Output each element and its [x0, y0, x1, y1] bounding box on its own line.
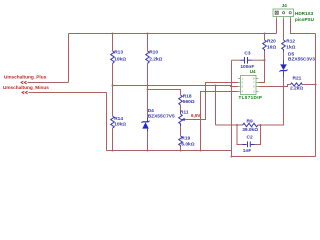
- svg-text:R9: R9: [247, 118, 253, 124]
- svg-text:Umschaltung_Plus: Umschaltung_Plus: [4, 74, 47, 79]
- svg-text:picoPSU: picoPSU: [295, 17, 315, 22]
- capacitor C2: [237, 125, 261, 147]
- svg-text:R18: R18: [183, 93, 192, 99]
- wire D4 to bottom rail: [147, 132, 149, 151]
- svg-text:TL071DIP: TL071DIP: [239, 95, 263, 100]
- wire R18 to R11: [180, 105, 182, 114]
- svg-text:R21: R21: [293, 76, 302, 82]
- wire bottom rail step: [231, 151, 233, 157]
- potentiometer R11 wiper arrow: [181, 118, 184, 121]
- wire R11 to R19: [180, 126, 182, 136]
- wire output pin6: [259, 85, 291, 87]
- wire feedback line right: [258, 124, 261, 126]
- wire R19 to rail: [180, 147, 182, 151]
- wire feedback to output: [261, 87, 284, 126]
- wire Umschaltung_Minus lead: [29, 92, 107, 94]
- wire Umschaltung_Plus lead: [28, 82, 69, 84]
- resistor R20: [263, 40, 267, 51]
- svg-text:R19: R19: [181, 136, 190, 142]
- wire R13 to mid rail: [112, 64, 114, 117]
- wire R12 to D5: [283, 52, 285, 61]
- wire R13 column top: [112, 34, 114, 52]
- svg-text:2.2kΩ: 2.2kΩ: [290, 86, 303, 92]
- wire stub to R18: [148, 90, 181, 96]
- svg-text:Umschaltung_Minus: Umschaltung_Minus: [3, 85, 49, 90]
- port arrow Umschaltung_Plus: [21, 81, 27, 84]
- wire R20 bottom to pin7: [259, 51, 265, 83]
- port arrow Umschaltung_Minus: [22, 91, 28, 94]
- resistor R9: [243, 123, 259, 127]
- svg-text:C2: C2: [247, 134, 253, 140]
- svg-text:R12: R12: [286, 38, 295, 44]
- wire bottom rail left: [107, 150, 232, 152]
- wire J4 pin3 down: [291, 17, 316, 34]
- wire R10 column top: [147, 34, 149, 52]
- resistor R18: [179, 95, 183, 105]
- svg-text:16Ω: 16Ω: [267, 44, 276, 50]
- resistor R19: [179, 136, 183, 147]
- svg-text:1kΩ: 1kΩ: [286, 44, 295, 50]
- svg-text:6.0kΩ: 6.0kΩ: [181, 141, 194, 147]
- svg-text:D4: D4: [148, 108, 154, 114]
- resistor R12: [282, 40, 286, 52]
- wire R14 to bottom rail: [112, 128, 114, 150]
- resistor R10: [146, 51, 150, 64]
- svg-text:6,5V: 6,5V: [191, 113, 201, 118]
- svg-text:10kΩ: 10kΩ: [114, 122, 126, 128]
- svg-text:J4: J4: [282, 3, 288, 8]
- wire J4 pin2 to R12: [283, 17, 285, 40]
- resistor R21: [291, 83, 303, 86]
- potentiometer R11: [179, 114, 183, 126]
- wire J4 pin1 down: [276, 17, 278, 34]
- wire C3 to R20 node: [252, 59, 265, 61]
- zener diode D5: [280, 61, 288, 78]
- svg-text:U4: U4: [250, 69, 256, 74]
- svg-text:39.0kΩ: 39.0kΩ: [242, 127, 258, 133]
- wire D5 to output: [283, 77, 285, 87]
- wire pin4 to ground: [201, 92, 239, 151]
- svg-text:R10: R10: [149, 50, 158, 56]
- wire R20 column top: [264, 34, 266, 41]
- svg-text:BZX55C3V3: BZX55C3V3: [288, 56, 315, 62]
- wire mid rail to pin3: [113, 86, 239, 87]
- svg-text:R13: R13: [114, 50, 123, 56]
- capacitor C3: [241, 57, 252, 64]
- svg-text:R20: R20: [267, 38, 276, 44]
- wire C3 horizontal left: [232, 59, 241, 61]
- svg-text:1nF: 1nF: [243, 148, 252, 154]
- wire feedback line left: [216, 124, 243, 126]
- wire output to R21 right: [302, 84, 316, 86]
- wire minus vertical: [106, 93, 108, 151]
- op-amp U4 TL071DIP: [238, 76, 259, 95]
- svg-text:2.2kΩ: 2.2kΩ: [149, 56, 162, 62]
- svg-text:R14: R14: [114, 116, 123, 122]
- wire wiper to pin2: [184, 83, 238, 120]
- resistor R14: [111, 116, 115, 128]
- wire R10 to D4: [147, 64, 149, 118]
- svg-text:C3: C3: [244, 50, 250, 56]
- wire bottom rail right: [232, 156, 316, 158]
- svg-text:HDR1X3: HDR1X3: [295, 11, 314, 16]
- connector J4: [273, 9, 294, 19]
- wire top rail: [69, 33, 277, 35]
- svg-text:10kΩ: 10kΩ: [114, 56, 126, 62]
- svg-text:R11: R11: [180, 109, 189, 115]
- wire plus vertical: [68, 34, 70, 83]
- wire right edge vertical: [315, 34, 317, 157]
- svg-text:560Ω: 560Ω: [183, 99, 195, 105]
- wire C3 left vertical: [231, 60, 233, 156]
- wire hysteresis vertical: [215, 86, 217, 126]
- svg-text:BZX55C7V5: BZX55C7V5: [148, 114, 175, 120]
- resistor R13: [111, 51, 115, 64]
- zener diode D4: [142, 118, 150, 132]
